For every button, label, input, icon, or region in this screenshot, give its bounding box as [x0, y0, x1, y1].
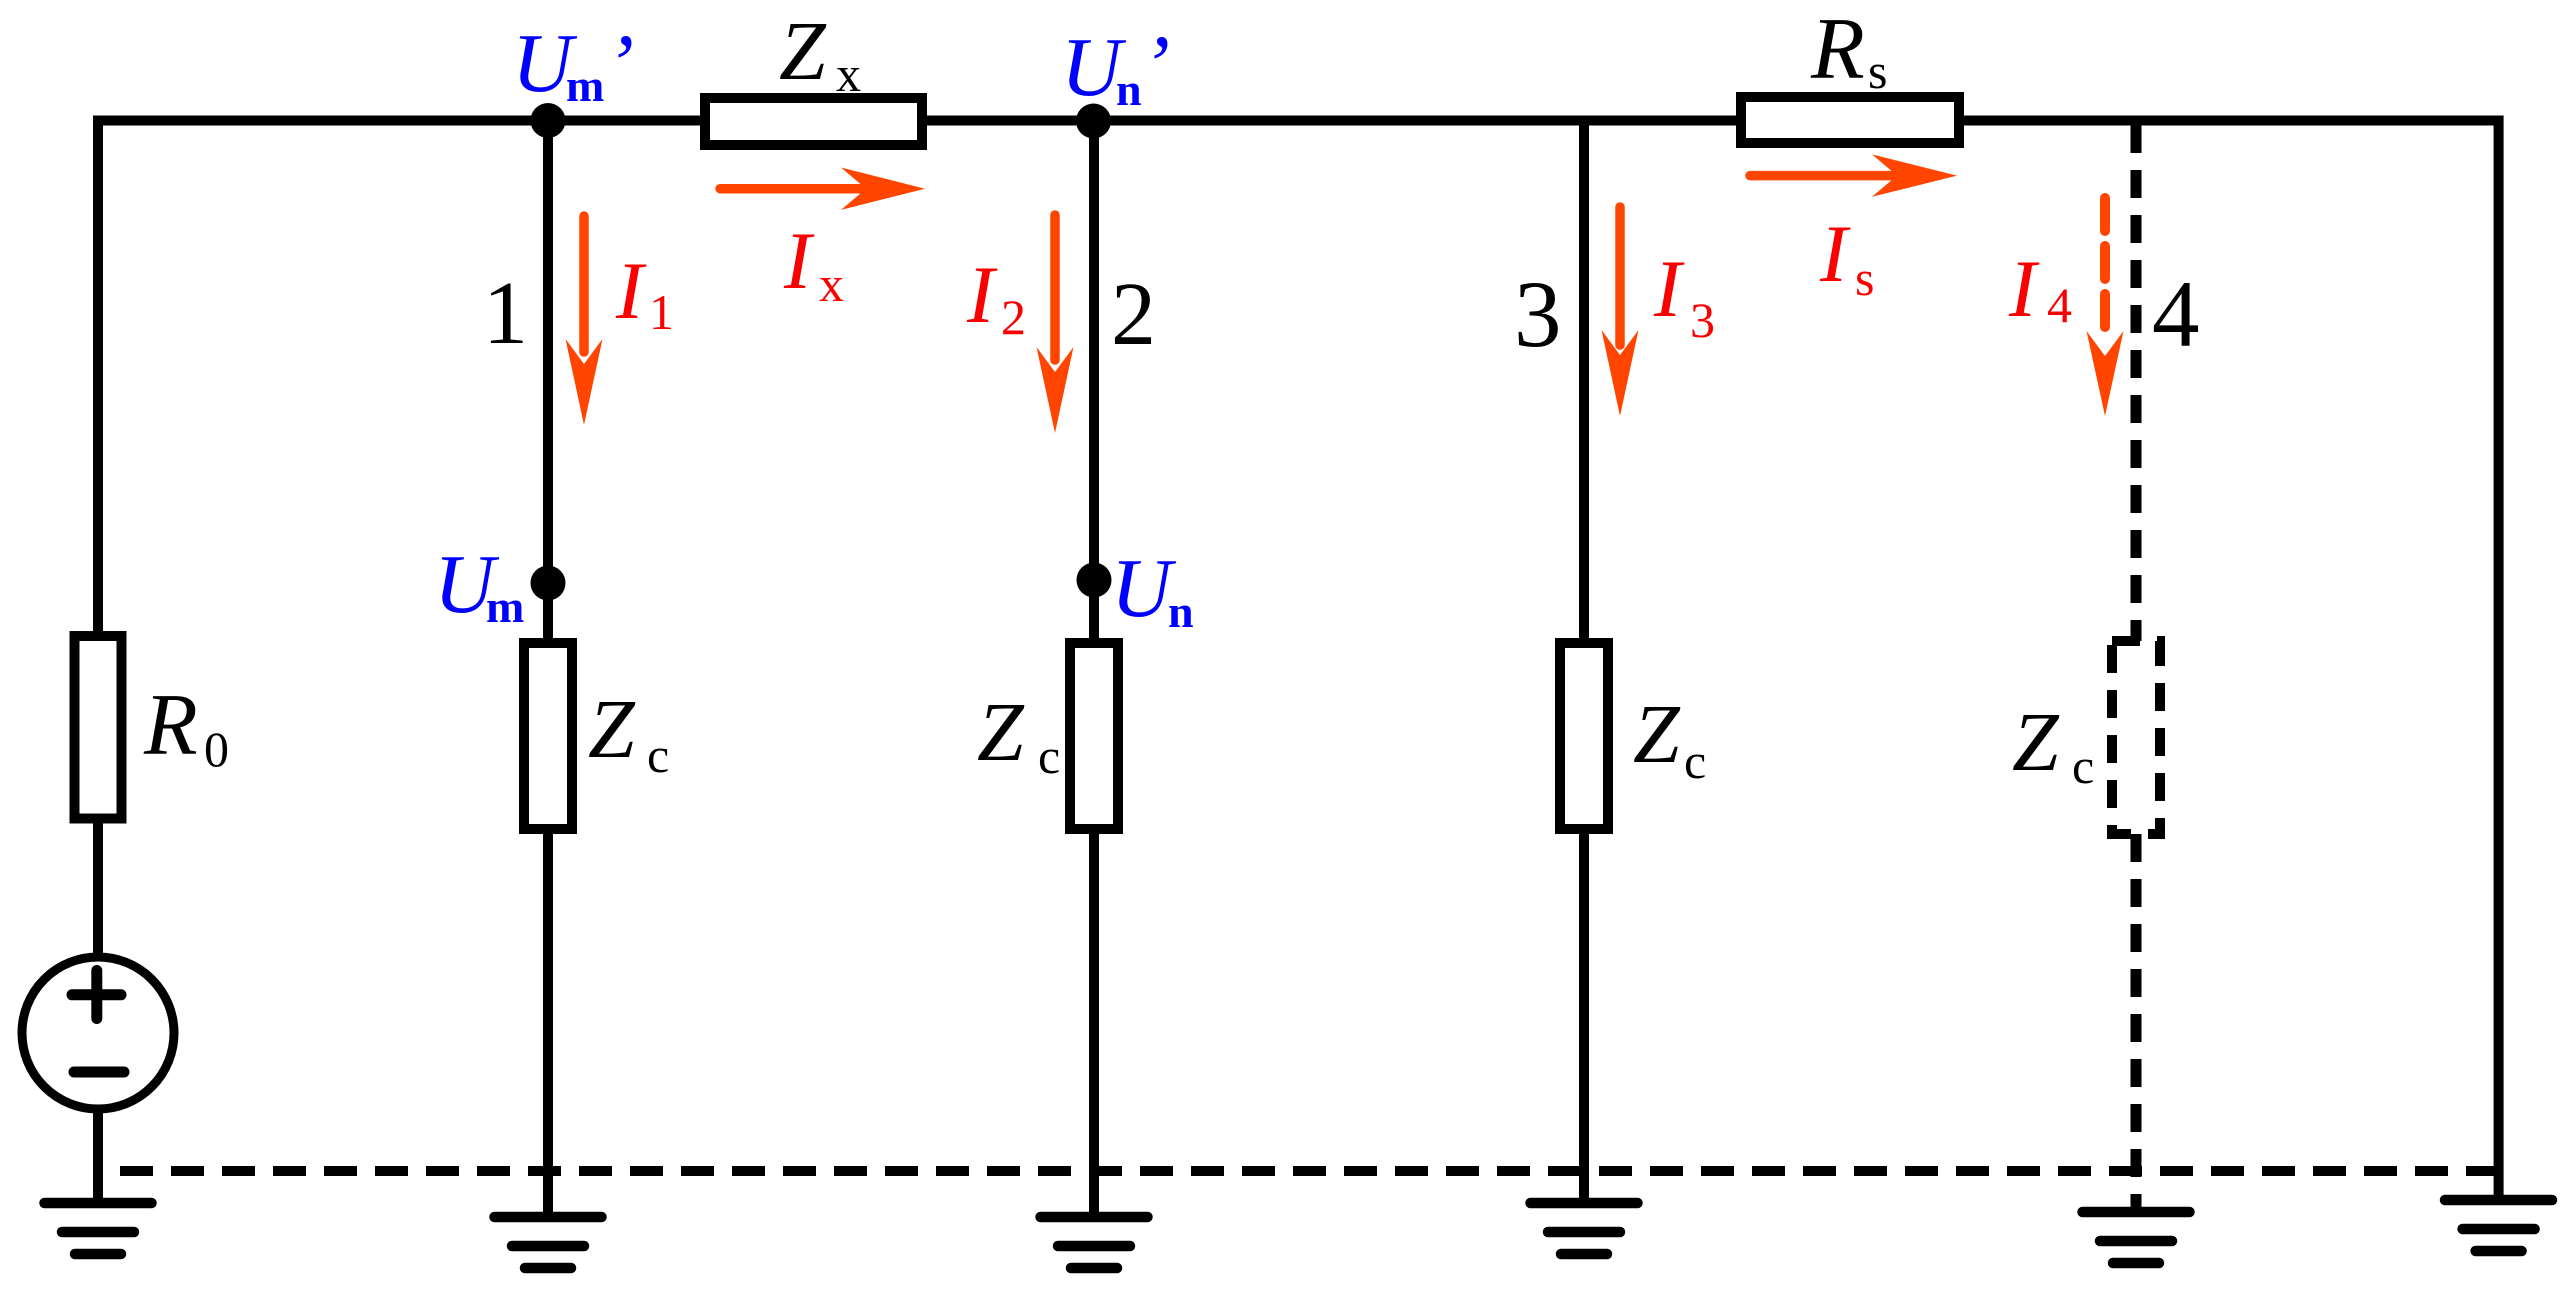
- svg-text:x: x: [819, 256, 844, 312]
- arrow Is: [1750, 154, 1957, 196]
- label Rs: [1810, 1, 1887, 99]
- svg-text:n: n: [1116, 64, 1142, 115]
- resistor Rs: [1741, 97, 1959, 143]
- resistor Zc (branch 3): [1560, 643, 1608, 829]
- arrow Ix: [720, 168, 925, 210]
- wire branch2 upper (Un' to Un): [1089, 121, 1099, 648]
- label Um: [434, 538, 524, 632]
- resistor R0: [75, 636, 122, 819]
- label 1: [483, 264, 528, 363]
- svg-text:n: n: [1168, 586, 1194, 637]
- wire branch2 lower: [1089, 829, 1099, 1217]
- wire top horizontal bus: [93, 116, 2503, 126]
- wire branch1 upper (Um' to Um): [543, 120, 553, 648]
- svg-text:R: R: [1810, 1, 1865, 98]
- ground (branch 2): [1041, 1217, 1148, 1268]
- label Ix: [783, 215, 844, 312]
- svg-text:Z: Z: [779, 5, 827, 98]
- svg-text:I: I: [615, 245, 647, 336]
- svg-text:1: 1: [483, 264, 528, 363]
- voltage source U: [22, 957, 174, 1109]
- svg-text:Z: Z: [1633, 688, 1681, 781]
- ground (branch 1): [495, 1217, 602, 1268]
- resistor Zc (branch 1): [524, 643, 572, 829]
- svg-text:I: I: [783, 215, 815, 306]
- label Zc (branch 1): [588, 683, 669, 783]
- node Um: [531, 566, 566, 601]
- arrow I4 dashed: [2087, 198, 2124, 416]
- svg-text:’: ’: [1142, 19, 1170, 112]
- label Zc (branch 4): [2012, 696, 2094, 794]
- ground (left, under source): [45, 1203, 152, 1254]
- wire branch3 lower: [1579, 829, 1589, 1203]
- label I1: [615, 245, 674, 340]
- wire branch1 lower: [543, 829, 553, 1217]
- ground (branch 4): [2083, 1212, 2190, 1263]
- svg-text:s: s: [1855, 250, 1874, 306]
- svg-text:2: 2: [1001, 289, 1026, 345]
- svg-text:c: c: [1038, 728, 1060, 784]
- label Um': [512, 17, 634, 111]
- label Un': [1061, 19, 1170, 115]
- label I4: [2008, 243, 2072, 334]
- svg-text:x: x: [836, 46, 861, 102]
- label Un: [1111, 542, 1194, 637]
- svg-text:I: I: [966, 249, 998, 340]
- wire R0 to source: [93, 823, 103, 958]
- svg-text:R: R: [143, 677, 198, 774]
- svg-text:4: 4: [2047, 277, 2072, 333]
- svg-text:4: 4: [2152, 261, 2200, 367]
- arrow I3: [1602, 207, 1639, 416]
- svg-text:Z: Z: [977, 686, 1025, 779]
- svg-text:2: 2: [1111, 265, 1156, 364]
- wire left vertical (top bus to R0): [93, 116, 103, 642]
- ground (branch 3): [1531, 1203, 1638, 1254]
- svg-text:1: 1: [649, 284, 674, 340]
- label 3: [1514, 261, 1562, 367]
- svg-text:c: c: [2072, 738, 2094, 794]
- resistor Zc dashed (branch 4): [2112, 641, 2160, 834]
- node Un: [1077, 563, 1112, 598]
- svg-text:m: m: [486, 581, 524, 632]
- label I2: [966, 249, 1026, 345]
- svg-text:c: c: [647, 727, 669, 783]
- node Un': [1076, 104, 1111, 139]
- wire branch4 dashed lower: [2131, 834, 2142, 1212]
- svg-text:Z: Z: [588, 683, 636, 776]
- wire branch3 upper: [1579, 120, 1589, 643]
- svg-text:3: 3: [1690, 292, 1715, 348]
- svg-text:s: s: [1868, 43, 1887, 99]
- resistor Zx: [705, 98, 922, 145]
- dashed ground bus line: [98, 1166, 2499, 1176]
- resistor Zc (branch 2): [1070, 643, 1118, 829]
- wire right vertical: [2494, 116, 2504, 1201]
- svg-text:I: I: [2008, 243, 2040, 334]
- label Zc (branch 2): [977, 686, 1060, 784]
- label Zc (branch 3): [1633, 688, 1706, 789]
- svg-text:c: c: [1684, 733, 1706, 789]
- ground (right): [2445, 1200, 2552, 1251]
- label Zx: [779, 5, 861, 102]
- wire source to ground: [93, 1108, 103, 1203]
- wire branch4 dashed upper: [2131, 125, 2142, 641]
- svg-text:Z: Z: [2012, 696, 2060, 789]
- arrow I2: [1037, 215, 1074, 433]
- label R0: [143, 677, 229, 777]
- svg-text:I: I: [1653, 243, 1685, 334]
- arrow I1: [566, 216, 603, 425]
- label 2: [1111, 265, 1156, 364]
- node Um': [531, 103, 566, 138]
- svg-text:0: 0: [204, 721, 229, 777]
- label I3: [1653, 243, 1715, 348]
- label 4: [2152, 261, 2200, 367]
- svg-text:3: 3: [1514, 261, 1562, 367]
- svg-text:’: ’: [606, 18, 634, 111]
- svg-text:m: m: [566, 60, 604, 111]
- svg-text:I: I: [1819, 208, 1851, 299]
- label Is: [1819, 208, 1874, 306]
